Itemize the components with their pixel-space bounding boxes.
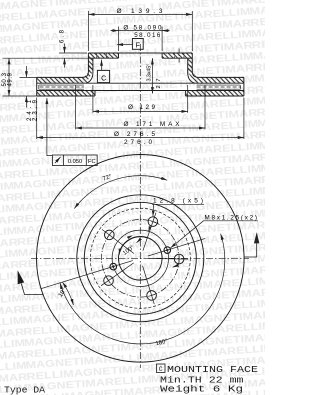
18 deg arc: [62, 282, 73, 305]
bolt hole centreline right: [178, 49, 180, 64]
mounting face right segment: [162, 57, 192, 59]
left hat wall inner profile: [86, 58, 93, 83]
svg-text:6.8: 6.8: [60, 29, 66, 43]
hatch: left hat flange: [88, 53, 118, 58]
vent bottom line (full width): [37, 90, 244, 92]
svg-text:2.7: 2.7: [156, 79, 162, 89]
disc OD edge left: [36, 77, 38, 96]
svg-text:12.8 (x5): 12.8 (x5): [153, 198, 203, 205]
180 deg arc: [60, 234, 225, 344]
svg-text:C: C: [159, 366, 163, 373]
hidden bolt hole in left flange: [97, 53, 107, 59]
dimension 3.3x45 / 2.7: [151, 58, 153, 93]
dimension Ø171 MAX: [76, 127, 205, 129]
geometric tolerance frame: [52, 155, 97, 166]
svg-text:MOUNTING FACE: MOUNTING FACE: [167, 365, 258, 375]
datum C leader: [101, 60, 103, 71]
dimension Ø58.090/58.016: [111, 30, 170, 32]
mounting face left segment: [88, 57, 118, 59]
friction top extension line (left): [20, 76, 37, 78]
svg-text:C: C: [101, 75, 106, 82]
100 deg arc: [119, 237, 147, 255]
small arrow lower right of M8: [173, 265, 179, 267]
dimension 6.8: [64, 44, 66, 68]
dimension Ø276.5/276.0: [37, 137, 244, 139]
vent slot centre dash right: [197, 86, 241, 88]
radial to M8 hole right: [148, 238, 205, 256]
bolt hole 1 (top): [148, 217, 158, 227]
hatch: left wall-to-plate cone: [76, 65, 93, 83]
hidden hat circle Ø139.3: [90, 208, 190, 308]
hatch: right hat wall: [188, 58, 193, 71]
hatch: left hat wall: [88, 58, 93, 71]
radial to bolt hole 1: [143, 213, 156, 251]
small tick near 100 deg: [137, 240, 141, 243]
svg-text:Ø 171 MAX: Ø 171 MAX: [124, 121, 181, 128]
svg-text:49.9: 49.9: [7, 72, 13, 86]
bottom plate inner edge right: [185, 91, 187, 97]
friction bottom surface left: [37, 95, 95, 97]
radial to bolt hole 5: [102, 229, 134, 253]
bolt hole 2 (right): [174, 254, 184, 264]
vent slot inner lines left: [39, 85, 84, 89]
hatch: right wall-to-plate cone: [188, 65, 205, 83]
vertical centreline: [139, 152, 141, 368]
vent slot inner lines right: [197, 85, 241, 89]
left hat wall outer profile: [76, 58, 89, 77]
dimension 24.1/23.9: [25, 66, 27, 108]
rotation arrow left: [18, 270, 25, 284]
dimension 50.3/49.9: [8, 58, 10, 96]
hatch: right hat flange: [162, 53, 192, 58]
72 deg arc: [74, 176, 167, 209]
svg-text:0.050: 0.050: [68, 159, 82, 165]
M8 hole left: [110, 263, 117, 270]
flange top surface: [88, 52, 192, 54]
boxed C legend: [157, 364, 166, 373]
dimension Ø58.090/58.016 extension lines: [119, 27, 163, 52]
datum C box: [97, 70, 109, 82]
bottom plate inner edge left: [94, 91, 96, 97]
datum F box: [132, 39, 143, 50]
dimension Ø129: [93, 110, 188, 112]
radial to bolt hole 2: [148, 257, 188, 260]
mounting face extension line (left): [3, 57, 89, 59]
datum F leader: [117, 44, 132, 46]
hatch: left friction top plate: [37, 77, 76, 83]
vent slot centre dash left: [40, 86, 85, 88]
geometric tolerance frame leader: [47, 98, 53, 156]
hat fillet circle: [84, 202, 196, 314]
centre hole Ø58: [119, 236, 163, 280]
hidden bolt hole in right flange: [174, 53, 184, 59]
hat outer edge left: [87, 53, 89, 58]
disc OD edge right: [243, 77, 245, 96]
friction bottom surface right: [186, 95, 244, 97]
friction bottom extension line (left): [3, 95, 37, 97]
friction top surface left: [37, 76, 76, 78]
svg-text:FC: FC: [88, 159, 96, 165]
dimension 6.8 extension line: [59, 52, 87, 54]
right hat wall outer profile: [192, 58, 205, 77]
radial to M8 hole left / 18 deg reference: [41, 261, 133, 289]
friction top surface right: [205, 76, 244, 78]
rotation arrow right: [254, 232, 260, 243]
vent top line (full width): [37, 82, 244, 84]
svg-text:58.016: 58.016: [134, 32, 161, 39]
bolt hole 5 (upper-left): [105, 230, 115, 240]
hatch: left friction bottom plate: [37, 91, 95, 97]
svg-text:Weight 6 Kg: Weight 6 Kg: [160, 385, 243, 395]
Ø129 extension lines: [93, 85, 188, 113]
friction inner circle Ø171: [77, 195, 204, 322]
dimension Ø139.3 extension lines: [88, 11, 192, 51]
radial to bolt hole 3: [143, 266, 155, 304]
outer circle Ø276.5: [37, 154, 245, 362]
horizontal centreline: [31, 257, 249, 259]
center hole right edge: [161, 53, 163, 58]
svg-text:Type DA: Type DA: [4, 386, 46, 395]
bolt hole 3 (bottom): [147, 291, 157, 301]
section axis centreline: [139, 44, 141, 152]
svg-text:Ø 129: Ø 129: [128, 104, 155, 111]
dimension Ø139.3: [88, 13, 192, 15]
radial to bolt hole 4: [101, 263, 134, 286]
svg-text:3.3x45°: 3.3x45°: [147, 64, 153, 82]
hatch: right friction top plate: [205, 77, 244, 83]
M8 hole right: [164, 247, 171, 254]
M8 positioning circle: [112, 230, 168, 286]
bolt hole 4 (lower-left): [104, 276, 114, 286]
Ø276.5 extension lines: [37, 98, 244, 140]
hatch: right friction bottom plate: [186, 91, 244, 97]
bolt circle (centreline): [102, 219, 180, 297]
center hole left edge: [118, 53, 120, 58]
right hat wall inner profile: [188, 58, 195, 83]
runout symbol: [55, 157, 61, 163]
svg-text:F: F: [136, 42, 140, 49]
hat outer edge right: [191, 53, 193, 58]
Ø171 extension lines: [76, 85, 205, 129]
